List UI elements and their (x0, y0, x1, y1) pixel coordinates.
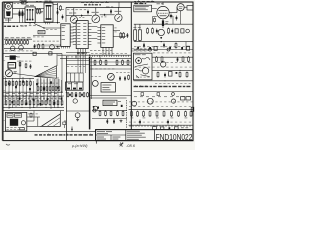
caption text top-left (4, 26, 18, 27)
label C1 value (59, 8, 64, 11)
transistor Q8 (73, 99, 77, 103)
resistor R67 (100, 60, 102, 66)
label values terminal row (5, 97, 60, 100)
label values near choke (28, 113, 38, 116)
label values center band (67, 56, 85, 59)
wire x62 drop (61, 54, 63, 93)
labels row y97 br (134, 95, 137, 98)
label D1 value (79, 16, 84, 19)
resistor R83 (188, 56, 190, 62)
resistor R95 (185, 111, 187, 117)
IC module U1 (61, 24, 74, 47)
resistor R41 (9, 81, 11, 87)
resistor R60 (67, 92, 69, 97)
wire q1 base feed (66, 15, 79, 17)
title cell1 midline (96, 134, 126, 136)
terminal P1 (149, 48, 152, 51)
resistor R47 (30, 81, 32, 87)
microphone MIC1 (4, 3, 12, 19)
ticks br below bus (130, 125, 190, 127)
label R8 (165, 20, 168, 23)
wire center y64 (66, 64, 89, 66)
wire v1 plate out (169, 12, 177, 14)
wire rm y91 (133, 90, 192, 92)
label R9 R10 (133, 26, 136, 29)
label text ps1 (8, 114, 12, 117)
capacitor C22 dot (149, 47, 151, 49)
resistor R5 (60, 5, 62, 11)
note text ALL ELECTROLYTIC left (35, 134, 93, 136)
wire bus y95 center (90, 94, 131, 96)
resistor R89 (143, 111, 145, 117)
resistor R4 (39, 8, 41, 14)
label values center y68 (91, 68, 114, 71)
ticks mid-left comb (36, 44, 60, 46)
resistor R75 (99, 111, 101, 117)
resistor R61 (49, 100, 51, 106)
wire U3 bottom drops (103, 47, 112, 55)
wire u2 to u3 b (91, 32, 97, 34)
wire v1 right drop (172, 16, 174, 24)
wire fan top corner up (56, 54, 58, 67)
handwritten tick left margin (6, 144, 10, 145)
label U2 pin names (77, 22, 80, 25)
capacitor C1 (57, 10, 59, 15)
transistor Q17 (93, 109, 96, 112)
capacitor C10 (119, 76, 121, 81)
label values br row2 (129, 105, 191, 108)
terminal tag right edge (191, 107, 194, 111)
part above title block B (161, 127, 164, 129)
resistor R33 (46, 86, 48, 91)
junction right rail (161, 41, 162, 42)
wire rm rail low (133, 80, 192, 82)
label title cell1 bottom (97, 136, 104, 139)
wire right y49 (134, 49, 193, 51)
resistor R8 cathode (162, 19, 164, 28)
wires crossing center y60-72 (90, 62, 131, 69)
svg-text:FND10N022: FND10N022 (156, 132, 193, 142)
transistor Q11 (92, 81, 98, 87)
junction dots harness (8, 92, 62, 93)
label Q1 designator (69, 12, 72, 15)
label B1 caption (135, 53, 141, 56)
wire x38 drop (37, 117, 39, 126)
resistor R87 (131, 111, 133, 117)
wire y28 to U1 (44, 27, 61, 29)
resistor R91 (156, 111, 158, 117)
wire bus left mid (3, 53, 62, 55)
resistor R70 (122, 60, 124, 66)
capacitor C14 (177, 57, 179, 62)
capacitor C11b (163, 43, 165, 48)
resistor R3 (36, 8, 38, 14)
resistor R57 (33, 100, 35, 106)
label fuzz y36 (33, 36, 44, 39)
wire q2 to q3 (100, 14, 115, 16)
label near Q11 (91, 75, 101, 78)
label values center y53 (91, 52, 127, 55)
capacitor C8 dot (160, 37, 162, 39)
resistor R71 (127, 60, 129, 66)
wires U2 terminals to comb (78, 54, 86, 73)
dashed divider (126, 100, 128, 129)
wire d1 to q2 (84, 15, 92, 17)
label U3 right values (114, 27, 116, 30)
wire v1 right lead (169, 15, 173, 17)
border frame (3, 2, 193, 141)
resistor R62 (75, 92, 77, 97)
svg-text:μ-(a·h/W): μ-(a·h/W) (71, 144, 88, 148)
resistor R79 (122, 111, 124, 117)
ground bottom-middle (120, 120, 123, 123)
label mid-left caption (5, 55, 9, 58)
wire U2 bottom terminals (77, 49, 86, 54)
junction node A1 (57, 8, 58, 9)
wire mic to T1 (13, 8, 26, 10)
capacitor C9 (34, 44, 36, 49)
capacitor C30 dot (169, 127, 171, 129)
wire drop near title block (71, 127, 73, 132)
junction dots br (137, 125, 138, 126)
transistor Q9 (75, 113, 80, 118)
capacitor C21 dot (137, 47, 139, 49)
capacitor C13 (113, 119, 115, 124)
wire cone top (59, 111, 61, 114)
resistor R44 (19, 81, 21, 87)
title block divider 1 (125, 130, 127, 141)
junction node A2 (57, 22, 58, 23)
junction center bus top (89, 55, 90, 56)
wire bus y96 (3, 95, 64, 97)
label left of T2 (40, 10, 43, 13)
resistor R46 (26, 81, 28, 87)
label fuzz y29 (46, 28, 57, 31)
labels along bus y92 (6, 92, 9, 95)
diode D2 (102, 14, 107, 16)
emitter mark Q3 (117, 16, 120, 19)
wire vcc up (118, 2, 120, 8)
label caption row top-left (20, 24, 40, 27)
wire bus y118 bm (92, 118, 127, 120)
wire u2 to u3 a (91, 26, 97, 28)
wire bus y107 (3, 106, 64, 108)
label values mid-left row2 (5, 50, 33, 53)
resistor R56 (29, 100, 31, 106)
resistor R95 (19, 62, 21, 67)
wire R1 lead down (19, 17, 21, 23)
capacitor C18 (30, 64, 32, 69)
wire harness verticals bottom-left (6, 77, 62, 109)
label row small text left (5, 36, 9, 39)
capacitor C27 dot (81, 94, 83, 96)
transistor Q1 (70, 16, 77, 23)
label X2 lines (102, 84, 111, 87)
resistor R2 dark (22, 10, 24, 18)
label Q2 designator (92, 11, 95, 14)
resistor R11 (147, 28, 149, 35)
cone lines SP1 (47, 118, 60, 127)
heading analog line1 (134, 1, 154, 3)
relay K1 (181, 97, 185, 100)
resistor R23 (15, 40, 17, 45)
capacitor C17 (167, 120, 169, 125)
label VC1 value (20, 0, 23, 2)
resistor R43 (16, 81, 18, 87)
resistor R1 dark (19, 10, 21, 18)
resistor R36 (55, 86, 57, 91)
wire bus link b (99, 55, 101, 59)
label U3 right values 2 (114, 31, 116, 34)
transistor Q2 (92, 15, 100, 23)
capacitor C15 (164, 73, 166, 78)
resistor R53 (17, 100, 19, 106)
wire bottom bus top-left (3, 22, 60, 24)
resistor R27 (27, 40, 29, 45)
resistor R24 (18, 40, 20, 45)
wire v1 left lead (153, 16, 157, 18)
wire q2 collector up (95, 8, 97, 16)
trimmer VC1 (20, 1, 28, 4)
label Q7 (14, 70, 17, 73)
resistor R62 (53, 100, 55, 106)
power transformer T4 black (10, 119, 18, 126)
resistor R84 (157, 72, 159, 78)
wire rail left drop (65, 8, 67, 23)
capacitor C5 (127, 33, 129, 38)
AF transformer T5 (66, 82, 83, 90)
IC module U2 (73, 21, 92, 49)
resistor R85 (179, 72, 181, 78)
module box X2 (101, 83, 115, 92)
border outer left line (1, 2, 3, 141)
wire bus y92 (3, 91, 63, 93)
terminal P3 (186, 29, 190, 33)
resistor R14 small (175, 29, 178, 33)
resistor R80 (156, 56, 158, 62)
resistor R78 (117, 111, 119, 117)
tick below title block (95, 141, 97, 144)
label T2 (45, 0, 48, 2)
capacitor C3 (87, 10, 89, 15)
resistor R65 (87, 92, 89, 97)
label values mid-left (33, 40, 59, 43)
capacitor C23 dot (169, 47, 171, 49)
heading text line1 (81, 1, 109, 3)
resistor R18 box (187, 46, 190, 50)
transistor Q15 (147, 98, 153, 104)
capacitor C6b (176, 16, 178, 21)
resistor R63 (79, 92, 81, 97)
pilot lamp LP1 (21, 121, 25, 125)
part T101 box (38, 31, 45, 34)
wire br bus bottom (129, 124, 193, 126)
label inside pictorial box (136, 76, 150, 79)
wire y35 to U1 (33, 35, 61, 37)
resistor R34 (49, 86, 51, 91)
wire q1 collector up (73, 8, 75, 16)
resistor R15 small (181, 29, 184, 33)
resistor R93 (171, 111, 173, 117)
capacitor C29 dot (121, 105, 123, 107)
part above title block C (175, 127, 179, 130)
resistor R9 tall (134, 24, 137, 41)
resistor R40 (5, 81, 7, 87)
capacitor C20 box (49, 52, 52, 55)
wire vertical node A (57, 3, 59, 24)
wire jack drop long (180, 11, 182, 24)
ticks center bus (90, 55, 128, 57)
wire y52 center (66, 51, 90, 53)
magnet of MIC1 (6, 11, 11, 16)
part above title block A (153, 127, 157, 130)
wire mic ground drop (7, 18, 9, 23)
wire rm rail top (152, 56, 193, 58)
wire q3 collector up (117, 7, 119, 14)
label inside PS1 bottom 2 (7, 128, 20, 131)
label values center y72 (116, 71, 130, 74)
wire mid bus 1 (58, 54, 132, 56)
wire bus mid y111 (66, 110, 90, 112)
wire ps outputs (27, 117, 40, 121)
wire mid bus 2 (60, 57, 131, 59)
label rail values top-center (67, 8, 86, 11)
terminal P2 (167, 48, 170, 51)
transistor Q12 cluster (93, 106, 98, 110)
capacitor C2 (62, 15, 64, 20)
resistor R76 (105, 111, 107, 117)
label U1 pins (62, 24, 66, 27)
resistor R45 (23, 81, 25, 87)
label caption 2 (21, 25, 24, 28)
resistor R25 (21, 40, 23, 45)
electrolytic capacitor dots bottom-left (8, 81, 62, 106)
label note box lines (135, 5, 149, 8)
wire mic lower to T1 (13, 13, 26, 15)
label T5 (68, 82, 72, 85)
label T1 (26, 4, 29, 7)
wire note box to v1 (152, 8, 157, 10)
wire bus y110 bm (92, 109, 127, 111)
power supply box PS1 (5, 112, 26, 131)
wire R2 lead down (21, 17, 23, 23)
capacitor C12 (106, 119, 108, 124)
resistor R51 (9, 100, 11, 106)
scan smudges along left border (4, 10, 6, 121)
wire right rail top (134, 23, 193, 25)
cone transducer SP1 (41, 114, 60, 127)
title block frame (96, 130, 193, 141)
resistor R7 (123, 32, 125, 39)
capacitor C6 (170, 14, 172, 19)
wire diagonal feed (34, 24, 44, 29)
resistor R94 (178, 111, 180, 117)
resistor R69 (116, 60, 118, 66)
resistor R64 (83, 92, 85, 97)
terminal strip row (5, 96, 62, 100)
wire T1 pin drop (29, 23, 31, 25)
wire top rail Vcc (66, 7, 131, 9)
resistor R86 (186, 72, 188, 78)
label T3 (17, 56, 20, 59)
label values below right rail (134, 45, 189, 48)
resistor R54 (21, 100, 23, 106)
resistor R81 (161, 56, 163, 62)
label values br circles row (129, 101, 193, 104)
resistor R68 (105, 60, 107, 66)
resistor R6 (120, 32, 122, 39)
transistor Q16 (171, 99, 175, 103)
wire x34 drop (33, 111, 35, 121)
emitter mark Q7 (7, 72, 10, 75)
svg-text:-08.6: -08.6 (126, 143, 136, 148)
handwritten note right (119, 142, 123, 146)
resistor R90 (149, 111, 151, 117)
IF transformer T1 (25, 7, 35, 23)
wire bus y110 (3, 110, 64, 112)
junction center bus mid (89, 95, 90, 96)
wire bottom bus left (3, 131, 96, 133)
resistor R50 (5, 100, 7, 106)
resistor R61 (71, 92, 73, 97)
resistor R17 box (154, 46, 157, 50)
resistor R8a (154, 18, 156, 23)
capacitor C15b dot (176, 72, 178, 74)
wire center y60 (66, 60, 89, 62)
resistor R96 (25, 63, 27, 68)
capacitor C7 (156, 29, 158, 34)
resistor R88 (137, 111, 139, 117)
label list right-mid a (132, 48, 147, 51)
label J1 OUTPUT (179, 5, 183, 8)
capacitor C25 dot (69, 94, 71, 96)
resistor R82 (182, 56, 184, 62)
wire section divider left-bottom (65, 56, 67, 140)
wire x1 to q7 (8, 68, 10, 70)
resistor R13 (168, 28, 170, 35)
wire v1 to jack (184, 6, 187, 8)
wire br bus top (129, 108, 193, 110)
capacitor C16 (139, 120, 141, 125)
label R3 R4 values (36, 0, 42, 3)
capacitor C11 (124, 76, 126, 81)
wire x20 drop (19, 60, 21, 79)
filter choke L1 (30, 113, 32, 118)
tube V2 (158, 29, 164, 35)
wire ps to cone (27, 125, 41, 127)
resistor R42 (12, 81, 14, 87)
junction dots rm (165, 80, 166, 81)
resistor R35 (52, 86, 54, 91)
label bus values center (90, 49, 112, 52)
pins T2 bottom (45, 22, 49, 24)
wire jack drop (176, 7, 178, 12)
resistor R12 (152, 28, 154, 35)
transistor Q5 (19, 45, 24, 50)
resistor R21 (9, 40, 11, 45)
resistor R31 (40, 86, 42, 91)
transistor Q7 (5, 70, 12, 77)
wire bus y98 center (90, 97, 127, 99)
label U3 pin names (102, 26, 105, 29)
label values right-mid 4 (155, 82, 191, 85)
wire u3 out b (113, 36, 126, 38)
capacitor C19 box (33, 52, 36, 55)
label values right-mid (153, 52, 191, 55)
note box N1 (134, 5, 152, 12)
small parts y93 (141, 93, 174, 96)
fuse F1 (20, 128, 25, 130)
